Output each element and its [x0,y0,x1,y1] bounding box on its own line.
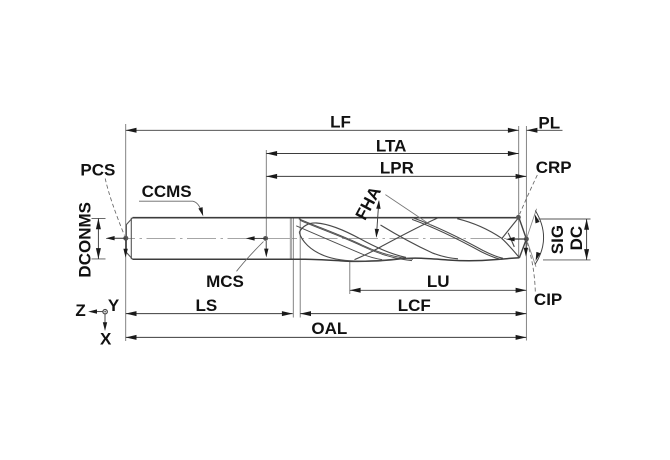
tip cone bottom edge [519,239,526,258]
svg-text:LS: LS [196,296,218,315]
MCS leader [237,242,264,272]
tip upper flank [502,218,519,239]
flute lens E1 bottom edge [299,232,406,261]
svg-text:PL: PL [538,113,560,132]
PCS dot [123,236,128,241]
shank back chamfer edge [130,218,132,260]
flute helix R pair a [414,218,504,258]
tip cone top edge [519,217,527,239]
extension line E (tip corner) [518,126,520,257]
CCMS underline and leader [139,201,202,213]
extension line A (back end) [125,124,127,341]
chisel edge [508,233,514,247]
extension line shank end [290,218,292,260]
apex dot (CIP point) [524,237,529,242]
flute lens E1 top edge [299,223,406,257]
flute edge N1 [381,225,459,259]
MCS X arrow [265,241,267,253]
PCS X arrow [125,240,127,253]
tip edge extension line V [526,209,536,239]
svg-text:LPR: LPR [380,158,414,177]
dimension DCONMS [92,218,106,259]
FHA dimension arrow [376,202,378,237]
tip edge extension line U [526,239,536,267]
flute helix edge L1b [300,220,412,260]
corner dot (CRP point) [516,215,521,220]
svg-text:LTA: LTA [376,136,407,155]
flute lens E2 right edge [457,219,502,239]
dimension DC [539,219,591,260]
MCS dot [263,236,268,241]
axis X arrow [104,315,106,326]
dimension OAL [126,336,527,338]
svg-text:CRP: CRP [536,158,572,177]
svg-text:OAL: OAL [311,319,347,338]
flute edge R descending [355,218,439,260]
MCS -Z arrow [250,237,266,239]
svg-text:LCF: LCF [398,296,431,315]
extension line B (MCS) [265,150,267,236]
svg-text:SIG: SIG [548,225,567,254]
CRP leader [520,175,538,214]
centerline (axis) [106,237,524,239]
dimension LS [126,313,293,315]
PCS leader [105,179,124,236]
tip lower flank [502,239,520,258]
flute helix R pair b [412,219,502,259]
dimension LU [350,289,527,291]
extension line F (apex) [525,126,527,341]
FHA helix reference line [385,195,432,226]
svg-text:DC: DC [567,226,586,251]
flute helix edge L1a [299,219,413,259]
shank back end face [126,218,132,260]
extension line flute start [299,218,301,318]
svg-text:LU: LU [427,272,450,291]
PCS -Z arrow [110,237,126,239]
bottom outline with flute dips [133,258,520,262]
svg-text:Y: Y [108,296,120,315]
flute groove lower line [296,226,382,260]
svg-text:Z: Z [75,301,85,320]
dimension PL [527,129,563,131]
svg-text:CIP: CIP [534,290,562,309]
extension line LU start [349,262,351,295]
svg-text:LF: LF [330,112,351,131]
dimension LTA [266,153,518,155]
shank top outline [133,217,519,219]
svg-text:X: X [100,329,112,348]
svg-text:DCONMS: DCONMS [76,202,95,278]
dimension LF [126,129,519,131]
dimension LPR [266,175,526,177]
axis origin marker [103,310,107,314]
CIP leader [527,243,535,292]
svg-text:MCS: MCS [206,272,244,291]
svg-text:CCMS: CCMS [142,182,192,201]
apex -Z arrow [509,238,526,240]
apex X arrow [525,241,527,253]
svg-text:PCS: PCS [80,161,115,180]
SIG arc [535,211,544,265]
dimension LCF [300,313,526,315]
